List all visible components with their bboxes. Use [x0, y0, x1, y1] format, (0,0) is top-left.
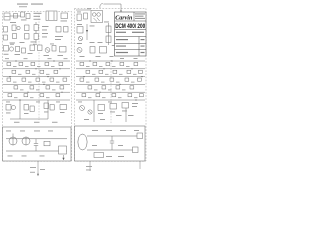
resistor R2: [61, 13, 68, 19]
label q row2: [15, 53, 21, 56]
label mid5: [80, 55, 85, 58]
wire right bus R5: [76, 91, 145, 93]
labels row L2: [18, 73, 50, 76]
label gap1: [5, 57, 9, 60]
labels row L1: [13, 65, 55, 68]
speaker M1: [78, 134, 87, 150]
transistor Q6: [80, 106, 85, 111]
label lower2: [24, 112, 29, 115]
labels row L4: [20, 89, 56, 92]
resistor R6: [25, 34, 30, 40]
transistor Q2: [45, 48, 50, 53]
resistor R16: [59, 146, 67, 154]
label net b: [42, 29, 47, 32]
label rl4: [132, 102, 138, 105]
svg-text:Carvin: Carvin: [115, 16, 133, 22]
wire drop x94: [93, 100, 95, 122]
resistor R7: [56, 27, 61, 33]
component row between L5-L6: [8, 94, 60, 97]
title block frame: [115, 12, 147, 56]
wire ladder x108.5: [108, 23, 110, 45]
transistor Q5: [77, 48, 82, 53]
label gap11: [36, 101, 40, 104]
resistor R11: [52, 46, 56, 52]
label below right: [86, 165, 92, 168]
wire out bottom: [87, 147, 138, 153]
label mid6: [96, 55, 101, 58]
component row between L1-L2: [7, 62, 63, 65]
label lower3: [44, 111, 49, 114]
resistor R20: [77, 27, 83, 34]
mains box: [3, 127, 72, 161]
labels row R4: [94, 89, 126, 92]
resistor R24: [100, 47, 107, 54]
label ob4: [134, 129, 139, 132]
label gap14: [77, 11, 81, 14]
wire h y119: [10, 118, 48, 120]
wire right bus R1: [76, 60, 145, 62]
label q row4: [44, 54, 50, 57]
title block field texts: [116, 14, 145, 54]
output box: [75, 126, 146, 161]
resistor R21: [106, 26, 111, 33]
wire drop x126: [125, 108, 127, 122]
wire left bus L4: [3, 83, 70, 85]
label box7: [48, 130, 53, 133]
lamp pigtail: [100, 4, 104, 8]
transistor Q7: [88, 110, 92, 114]
resistor R22: [106, 36, 111, 43]
label R7: [55, 35, 63, 38]
component row between R1-R2: [80, 62, 138, 65]
wire below right box b: [139, 161, 141, 169]
label net d: [42, 36, 47, 39]
label box1: [8, 155, 13, 158]
junction dots left: [9, 60, 62, 100]
left panel inner dashed divider: [38, 13, 40, 120]
resistor R1: [14, 14, 18, 19]
wire out top: [87, 133, 143, 139]
label ob2: [106, 129, 112, 132]
label C1: [21, 19, 27, 22]
label K1: [10, 21, 16, 24]
right panel inner dashed divider: [110, 60, 112, 124]
labels row R3: [86, 81, 135, 84]
label T1: [34, 13, 42, 14]
wire left bus L6: [3, 99, 70, 101]
wire drop x48: [47, 100, 49, 119]
label gap3: [48, 57, 52, 60]
relay K2: [91, 11, 103, 23]
left panel dashed border: [3, 12, 72, 162]
diode D2: [86, 24, 88, 40]
label rl9: [100, 118, 105, 121]
label ob6: [118, 144, 123, 147]
capacitor C3: [34, 139, 38, 151]
resistor R17: [44, 141, 50, 146]
label K2: [104, 21, 109, 24]
wire right bus R2: [76, 68, 145, 70]
label gap2: [24, 57, 28, 60]
label mid8: [120, 57, 124, 60]
resistor R9: [30, 45, 35, 51]
capacitor C2: [12, 25, 20, 39]
wire top jumper: [104, 4, 122, 12]
component row between R5-R6: [82, 94, 143, 97]
label gap6: [33, 43, 37, 46]
label rl5: [132, 105, 137, 108]
label mid7: [110, 55, 114, 58]
label lower6: [34, 121, 40, 124]
right panel dashed border: [75, 9, 147, 162]
resistor R12: [60, 47, 67, 53]
label R2: [61, 20, 68, 23]
label box2: [22, 155, 27, 158]
wire left bus L2: [3, 68, 70, 70]
label below right2: [86, 169, 91, 172]
label mid1: [77, 42, 82, 45]
lamp L2: [22, 137, 30, 145]
label mid3: [98, 41, 103, 44]
label gap4: [64, 57, 68, 60]
wire right bus R3: [76, 76, 145, 78]
label box4: [6, 130, 11, 133]
label mid2: [90, 41, 95, 44]
component row between R3-R4: [80, 78, 141, 81]
label box5: [20, 130, 25, 133]
label mid4: [112, 44, 116, 47]
resistor R13: [24, 105, 34, 112]
transistor Q1: [16, 47, 26, 54]
resistor R8: [64, 27, 69, 33]
label net c: [42, 32, 48, 35]
wire left bus L1: [3, 60, 70, 62]
wire drop x20: [19, 100, 21, 119]
wire right bus R4: [76, 83, 145, 85]
wire mains top: [6, 138, 67, 140]
label below3: [30, 171, 35, 174]
label T1b: [34, 15, 41, 18]
wire top link: [10, 15, 21, 17]
wire top feed: [76, 9, 91, 11]
label rl2: [110, 111, 115, 114]
resistor R3: [4, 27, 8, 33]
header text note 2: [31, 4, 43, 5]
junction dots right: [83, 60, 142, 100]
label box6: [34, 130, 40, 133]
transistor Q3: [6, 105, 16, 111]
label lower1: [6, 112, 11, 115]
wire arrow down: [62, 155, 64, 160]
label mid9: [134, 57, 138, 60]
labels row R2: [92, 73, 137, 76]
resistor R10: [38, 45, 43, 51]
label col1: [10, 42, 16, 45]
label below2: [40, 168, 45, 171]
component row between L4-L5: [14, 86, 64, 89]
resistor R27: [122, 103, 129, 109]
component row between R4-R5: [88, 86, 134, 89]
label rl3: [122, 110, 127, 113]
resistor R25: [98, 105, 105, 111]
label below1: [30, 166, 36, 169]
labels row L3: [13, 81, 60, 84]
svg-text:DCM 400/ 200: DCM 400/ 200: [115, 23, 145, 30]
wire mains bottom: [6, 150, 67, 152]
label ob3: [120, 129, 126, 132]
resistor R18: [77, 14, 81, 21]
resistor R26: [110, 104, 117, 110]
label q row1: [4, 53, 9, 56]
label gap10: [6, 101, 10, 104]
wire right bus R6: [76, 99, 145, 101]
label lower4: [60, 111, 65, 114]
wire below right box a: [89, 161, 91, 171]
label gap13: [87, 7, 91, 10]
label rl7: [128, 114, 134, 117]
component row between R2-R3: [86, 70, 142, 73]
resistor R15: [60, 105, 67, 110]
header text note 3: [19, 5, 27, 8]
label gap8: [78, 101, 82, 104]
label lower5: [14, 121, 20, 124]
label ob8: [118, 155, 124, 158]
lamp L1: [9, 134, 17, 146]
label gap5: [10, 43, 14, 46]
label R19: [90, 25, 95, 28]
resistor R5: [25, 25, 30, 31]
label T1c: [34, 18, 41, 21]
labels row R1: [86, 65, 130, 68]
wire below left box: [37, 161, 39, 176]
diode D1: [4, 46, 14, 52]
resistor R14: [44, 103, 54, 110]
labels row R5: [88, 96, 138, 99]
label gap12: [56, 101, 60, 104]
label rl6: [116, 114, 122, 117]
label gap7: [50, 43, 54, 46]
label q row5: [58, 54, 64, 57]
label col2: [20, 41, 25, 44]
wire chain x36: [34, 22, 38, 43]
capacitor C4: [110, 136, 114, 150]
resistor R4: [4, 35, 8, 40]
resistor R28: [94, 153, 104, 158]
label ob5: [92, 144, 97, 147]
page background: [0, 0, 149, 198]
transistor Q4: [78, 36, 82, 40]
label box3: [40, 155, 45, 158]
wire left bus L3: [3, 76, 70, 78]
relay K1: [4, 13, 10, 20]
transformer T1: [46, 11, 57, 21]
label R8: [55, 38, 61, 41]
component row between L2-L3: [12, 70, 58, 73]
header text note 1: [17, 4, 28, 5]
label q row3: [28, 52, 33, 55]
label net a: [42, 25, 49, 28]
component row between L3-L4: [7, 78, 67, 81]
label col3: [31, 41, 37, 44]
label R18: [77, 23, 82, 26]
label ob1: [92, 129, 98, 132]
resistor R19: [84, 13, 88, 19]
capacitor C1: [21, 12, 31, 19]
resistor R23: [90, 47, 95, 54]
label ob7: [106, 155, 112, 158]
labels row L5: [14, 96, 50, 99]
label lower7: [52, 121, 58, 124]
wire left bus L5: [3, 91, 70, 93]
label rl8: [84, 118, 89, 121]
label rl1: [98, 112, 103, 115]
label gap9: [108, 101, 112, 104]
